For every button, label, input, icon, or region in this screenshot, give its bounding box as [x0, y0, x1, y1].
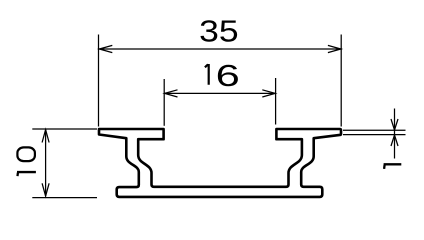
- dim 16 dimension line: [165, 92, 276, 94]
- dim 1 leader above: [394, 109, 396, 130]
- dim 35 extension line left: [98, 35, 100, 127]
- dim 16 extension line left: [163, 79, 165, 126]
- dim 35 extension line right: [340, 35, 342, 127]
- dim 1 tick between lines: [394, 130, 396, 135]
- dim 10 dimension line: [45, 130, 47, 197]
- dim 35 dimension line: [99, 48, 341, 50]
- dim 1 arrowhead down: [391, 119, 398, 130]
- svg-text:6: 6: [216, 59, 240, 93]
- dim 10 extension line top: [32, 128, 97, 130]
- dim 10 arrowhead bottom: [42, 183, 49, 196]
- dim 35 arrowhead right: [328, 45, 341, 52]
- dim 16 extension line right: [275, 78, 277, 125]
- dim 10 extension line bottom: [32, 197, 97, 199]
- dim 10 value label digit 1 (rotated): [17, 172, 36, 176]
- svg-text:35: 35: [199, 14, 239, 48]
- dim 1 extension line bottom: [343, 134, 406, 136]
- profile outline (extruded rail cross-section): [99, 129, 341, 197]
- dim 16 arrowhead right: [262, 90, 275, 97]
- dim 1 value label (rotated digit 1): [384, 164, 402, 169]
- dim 10 value label digit 0 (rotated): [17, 147, 35, 161]
- dim 16 value label digit 1: [205, 64, 209, 85]
- dim 1 leader below: [394, 135, 396, 158]
- dim 16 arrowhead left: [165, 90, 178, 97]
- dim 1 arrowhead up: [391, 135, 398, 146]
- dim 35 arrowhead left: [99, 45, 112, 52]
- dim 10 arrowhead top: [42, 130, 49, 143]
- dim 1 extension line top: [343, 129, 406, 131]
